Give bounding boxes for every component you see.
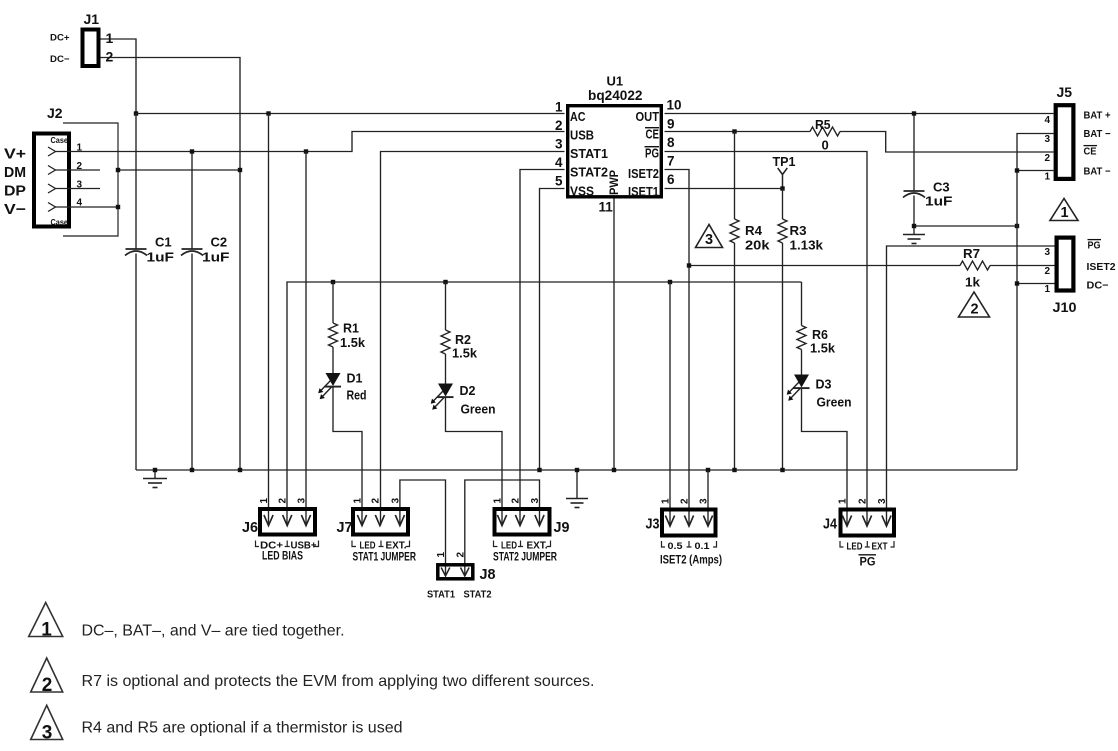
wire BAT- vertical: J5 pin3 down to ground rail (1017, 134, 1054, 471)
flag triangle 2 (959, 292, 990, 317)
svg-text:BAT +: BAT + (1084, 111, 1111, 122)
wire STAT2 net: U1 pin4 left then down to J9 pin2 (520, 170, 565, 526)
svg-text:STAT1: STAT1 (427, 589, 455, 601)
node junction J5 pin1 (1015, 168, 1019, 172)
svg-text:1.5k: 1.5k (452, 346, 478, 361)
svg-text:1.5k: 1.5k (810, 341, 836, 356)
svg-text:STAT2: STAT2 (464, 589, 492, 601)
svg-text:PG: PG (1088, 241, 1101, 252)
node junction C3 bottom (912, 224, 916, 228)
svg-text:2: 2 (42, 675, 53, 696)
svg-text:LED: LED (360, 541, 376, 552)
svg-text:2: 2 (858, 498, 869, 504)
wire DC- net: J1 pin2 right then down to ground rail (101, 58, 241, 471)
svg-text:20k: 20k (745, 238, 770, 253)
svg-text:1uF: 1uF (147, 250, 175, 265)
node junction rail: center ground (575, 468, 579, 472)
connector J4 (841, 510, 895, 536)
svg-text:LED: LED (501, 541, 517, 552)
svg-text:1: 1 (1060, 205, 1068, 221)
wire J5 pin1 stub (1017, 170, 1054, 172)
svg-text:EXT.: EXT. (386, 541, 407, 552)
svg-text:STAT1 JUMPER: STAT1 JUMPER (353, 552, 417, 564)
svg-text:V+: V+ (4, 146, 26, 163)
svg-text:1: 1 (106, 30, 114, 46)
node junction R4 top on CE line (732, 129, 736, 133)
node junction J6 pin3 drop on V+ rail (304, 149, 308, 153)
svg-text:R5: R5 (815, 117, 831, 132)
svg-text:2: 2 (77, 161, 83, 172)
svg-text:ISET2: ISET2 (628, 167, 659, 181)
node junction rail: PWP (612, 468, 616, 472)
node junction J10 pin1 (1015, 281, 1019, 285)
node junction rail: R3 (780, 468, 784, 472)
svg-text:1k: 1k (965, 275, 981, 290)
svg-text:3: 3 (297, 498, 308, 504)
wire R7 to J10 pin2 (990, 265, 1055, 267)
capacitor C2 (181, 152, 203, 471)
wire LED bias rail from J6 pin2 riser (287, 282, 802, 526)
connector J5 (1056, 105, 1074, 179)
node junction J6 pin1 drop on AC rail (266, 111, 270, 115)
wire J10 pin1 stub (1017, 283, 1055, 285)
svg-text:R7: R7 (963, 246, 980, 261)
node junction case/DM tie (116, 168, 120, 172)
svg-text:Red: Red (347, 388, 367, 403)
node junction rail: J3 pin3 (706, 468, 710, 472)
svg-text:7: 7 (667, 154, 675, 169)
node junction rail: left ground (153, 468, 157, 472)
svg-text:ISET2 (Amps): ISET2 (Amps) (660, 555, 722, 567)
wire OUT net: U1 pin10 to J5 pin4 (665, 113, 1054, 115)
svg-text:J6: J6 (242, 520, 258, 536)
svg-text:EXT: EXT (872, 542, 888, 553)
resistor R7 1k (960, 261, 990, 270)
connector J6 (260, 509, 315, 535)
note triangle 3 (31, 705, 63, 739)
svg-text:VSS: VSS (570, 185, 594, 199)
svg-text:6: 6 (667, 172, 675, 187)
svg-text:Green: Green (461, 402, 496, 417)
ground symbol at C3 (903, 226, 925, 244)
svg-text:2: 2 (970, 302, 978, 318)
svg-text:U1: U1 (607, 74, 624, 89)
LED D2 Green (431, 384, 454, 410)
svg-text:J9: J9 (554, 520, 570, 536)
note triangle 2 (31, 658, 63, 692)
svg-text:R1: R1 (343, 321, 359, 336)
svg-text:1uF: 1uF (202, 250, 230, 265)
wire C3 ground to BAT- vertical (914, 225, 1017, 227)
svg-text:C3: C3 (933, 180, 950, 195)
connector J7 (353, 509, 408, 535)
svg-text:DC–, BAT–, and V– are tied tog: DC–, BAT–, and V– are tied together. (82, 623, 345, 640)
node junction ISET2 link (687, 263, 691, 267)
svg-text:D2: D2 (460, 383, 476, 398)
svg-text:DC−: DC− (1087, 281, 1109, 292)
note triangle 1 (29, 603, 63, 637)
svg-text:1: 1 (436, 552, 447, 558)
wire drop V+ rail to J6 pin3 (305, 152, 307, 526)
svg-text:1: 1 (661, 498, 672, 504)
wire J4 pin3 up and right to J10 pin3 (887, 246, 1055, 526)
capacitor C1 (125, 114, 147, 471)
svg-text:3: 3 (1044, 134, 1050, 145)
svg-text:J2: J2 (47, 105, 63, 121)
svg-text:BAT −: BAT − (1084, 129, 1111, 140)
svg-text:9: 9 (667, 117, 675, 132)
svg-text:DC+: DC+ (50, 33, 70, 44)
svg-text:LED: LED (847, 542, 863, 553)
svg-text:0.1: 0.1 (695, 541, 710, 551)
svg-text:1: 1 (555, 100, 563, 115)
svg-text:J7: J7 (337, 520, 353, 536)
resistor R2 1.5k (441, 282, 450, 384)
svg-text:2: 2 (1044, 153, 1050, 164)
svg-text:J10: J10 (1053, 299, 1077, 315)
svg-text:DC−: DC− (50, 54, 70, 65)
wire V+ net: J2 pin1 rail to step up into U1 USB pin (56, 132, 565, 152)
svg-text:3: 3 (1044, 247, 1050, 258)
svg-text:J1: J1 (84, 11, 100, 27)
svg-text:2: 2 (278, 498, 289, 504)
node junction C2 tap on V+ rail (190, 149, 194, 153)
pin chevron J2 pin2 (48, 166, 56, 175)
svg-text:CE: CE (1084, 147, 1097, 158)
wire J2 pin4 V- stub to case wire (56, 206, 119, 208)
svg-text:3: 3 (699, 498, 710, 504)
svg-text:PG: PG (645, 147, 659, 161)
connector J10 (1057, 238, 1074, 291)
node junction TP1/R3 on ISET1 (780, 186, 784, 190)
connector J8 (438, 565, 473, 579)
svg-text:1: 1 (259, 498, 270, 504)
wire D2 cathode jog to J9 pin1 (446, 397, 503, 525)
node junction case/V- (116, 205, 120, 209)
ground symbol center below rail (566, 470, 588, 508)
LED D3 Green (787, 375, 810, 401)
node junction R1 top on bias rail (331, 280, 335, 284)
svg-text:2: 2 (680, 498, 691, 504)
svg-text:bq24022: bq24022 (588, 88, 643, 103)
svg-text:D1: D1 (347, 371, 363, 386)
svg-text:EXT.: EXT. (527, 541, 548, 552)
svg-text:Green: Green (817, 395, 852, 410)
svg-text:10: 10 (667, 98, 682, 113)
wire CE net: R5 to step down to J5 pin2 (840, 132, 1054, 153)
svg-text:3: 3 (705, 232, 713, 248)
svg-text:USB: USB (570, 129, 594, 143)
svg-text:D3: D3 (816, 377, 832, 392)
svg-text:4: 4 (555, 155, 563, 170)
LED D1 Red (318, 373, 341, 399)
svg-text:R3: R3 (790, 223, 807, 238)
wire ISET1 net: U1 pin6 to R3 top (665, 188, 783, 190)
svg-text:TP1: TP1 (773, 154, 796, 169)
svg-text:J4: J4 (823, 517, 837, 533)
svg-text:1.13k: 1.13k (790, 238, 824, 253)
wire J8 pin2 up jog to J9 pin3 (465, 480, 540, 576)
node junction C3 tap on OUT line (912, 111, 916, 115)
svg-text:2: 2 (455, 552, 466, 558)
wire J7 pin3 up jog to J8 pin1 (400, 480, 446, 576)
node junction J3 pin1 on bias rail (668, 280, 672, 284)
svg-text:1: 1 (41, 620, 52, 641)
wire drop AC rail to J6 pin1 (268, 114, 270, 526)
pin chevron J2 pin4 (48, 203, 56, 212)
svg-text:OUT: OUT (636, 110, 660, 124)
wire J2 pin2 DM stub (56, 169, 101, 171)
svg-text:4: 4 (1044, 115, 1050, 126)
svg-text:1: 1 (838, 498, 849, 504)
svg-text:STAT2: STAT2 (570, 166, 608, 180)
flag triangle 3 (696, 225, 723, 248)
wire PG net: U1 pin8 right then down to J4 pin2 (665, 152, 868, 526)
svg-text:1: 1 (1044, 172, 1050, 183)
wire ground rail (136, 469, 1017, 471)
svg-text:LED BIAS: LED BIAS (262, 551, 303, 563)
svg-text:8: 8 (667, 135, 675, 150)
bracket under J6 (256, 541, 319, 547)
svg-text:3: 3 (530, 498, 541, 504)
wire J3 pin3 riser (707, 470, 709, 526)
svg-text:C2: C2 (211, 235, 228, 250)
svg-text:3: 3 (555, 137, 563, 152)
wire PWP pin11 down to ground rail (613, 199, 615, 471)
node junction DC+ at AC rail (134, 111, 138, 115)
svg-text:0.5: 0.5 (668, 541, 683, 551)
capacitor C3 (903, 114, 925, 227)
svg-text:V−: V− (4, 201, 26, 218)
op-amp IC U1 bq24022 (568, 106, 662, 197)
svg-text:J8: J8 (480, 567, 496, 583)
svg-text:STAT1: STAT1 (570, 147, 608, 161)
svg-text:2: 2 (106, 49, 114, 65)
svg-text:4: 4 (77, 198, 83, 209)
wire D1 cathode jog to J7 pin1 (333, 387, 362, 526)
svg-text:11: 11 (599, 200, 614, 215)
resistor R4 20k (730, 132, 739, 471)
svg-text:R4: R4 (745, 223, 763, 238)
svg-text:Case: Case (51, 217, 69, 227)
wire J2 case shield loop (63, 123, 118, 236)
svg-text:ISET2: ISET2 (1087, 262, 1116, 273)
svg-text:2: 2 (1044, 266, 1050, 277)
svg-text:2: 2 (555, 118, 563, 133)
svg-text:STAT2 JUMPER: STAT2 JUMPER (493, 552, 558, 564)
svg-text:R7 is optional and protects th: R7 is optional and protects the EVM from… (82, 673, 595, 690)
svg-text:J5: J5 (1057, 84, 1073, 100)
wire D3 cathode jog to J4 pin1 (802, 388, 848, 525)
svg-text:2: 2 (511, 498, 522, 504)
svg-text:2: 2 (370, 498, 381, 504)
connector J1 (83, 30, 99, 67)
bracket under J9 (494, 541, 551, 547)
svg-text:CE: CE (646, 128, 660, 142)
svg-text:C1: C1 (155, 235, 172, 250)
svg-text:1: 1 (1044, 284, 1050, 295)
bracket under J4 (840, 541, 894, 547)
bracket under J3 (662, 541, 717, 547)
svg-text:5: 5 (555, 174, 563, 189)
svg-text:3: 3 (42, 723, 53, 744)
wire VSS net: U1 pin5 left then down to ground rail (540, 189, 565, 471)
svg-text:1: 1 (77, 143, 83, 154)
wire J3 pin1 drop (669, 282, 671, 526)
node junction R2 top on bias rail (443, 280, 447, 284)
svg-text:1: 1 (353, 498, 364, 504)
wire DC+ net: J1 pin1 to AC rail drop (101, 39, 137, 114)
svg-text:3: 3 (877, 498, 888, 504)
svg-text:BAT −: BAT − (1084, 167, 1111, 178)
svg-text:DP: DP (4, 183, 26, 200)
pin chevron J2 pin1 (48, 147, 56, 156)
node junction BAT- vertical at 226 (1015, 224, 1019, 228)
pin chevron J2 pin3 (48, 184, 56, 193)
wire AC rail to U1 pin1 (136, 113, 565, 115)
svg-text:PG: PG (860, 555, 876, 569)
svg-text:0: 0 (822, 138, 829, 153)
svg-text:Case: Case (51, 135, 69, 145)
resistor R1 1.5k (329, 282, 338, 373)
test point TP1 (778, 168, 788, 189)
svg-text:PWP: PWP (607, 170, 621, 195)
wire STAT1 net: U1 pin3 left then down to J7 pin2 (381, 152, 565, 526)
connector J9 (495, 509, 550, 535)
node junction rail: VSS (537, 468, 541, 472)
svg-text:DM: DM (4, 164, 26, 181)
wire ISET2 link to R7 (689, 265, 960, 267)
node junction rail: C2 (190, 468, 194, 472)
flag triangle 1 (1050, 199, 1078, 221)
bracket under J7 (352, 541, 410, 547)
svg-text:ISET1: ISET1 (628, 185, 659, 199)
resistor R5 (810, 127, 840, 136)
wire J2 pin3 DP stub (56, 188, 101, 190)
connector J2 (34, 134, 69, 227)
wire ISET2 net: U1 pin7 right then down to J3 pin2 (665, 170, 690, 526)
resistor R3 1.13k (778, 189, 787, 471)
svg-text:R4 and R5 are optional if a th: R4 and R5 are optional if a thermistor i… (82, 720, 403, 737)
resistor R6 1.5k (797, 282, 806, 375)
wire CE net: U1 pin9 to R5 (665, 131, 811, 133)
node junction rail: R4 (732, 468, 736, 472)
svg-text:1.5k: 1.5k (340, 335, 366, 350)
svg-text:AC: AC (570, 110, 586, 124)
svg-text:J3: J3 (646, 517, 660, 533)
svg-text:1uF: 1uF (925, 194, 953, 209)
connector J3 (662, 510, 716, 536)
svg-text:3: 3 (77, 180, 83, 191)
svg-text:1: 1 (493, 498, 504, 504)
wire case to DC- tie (118, 169, 240, 171)
svg-text:3: 3 (390, 498, 401, 504)
node junction rail: DC- (238, 468, 242, 472)
node junction DC- tie (238, 168, 242, 172)
ground symbol left (143, 470, 167, 488)
